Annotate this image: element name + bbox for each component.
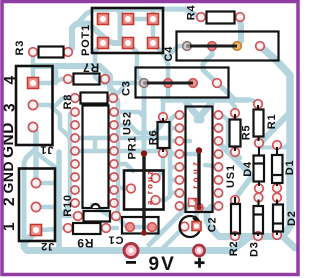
wire bottom bus [24, 231, 247, 251]
pads round [28, 13, 281, 241]
diode D1 [272, 155, 283, 183]
wire bus B [207, 207, 284, 237]
wire C2 right stub [197, 210, 200, 226]
wire R8.1 stub [56, 98, 75, 105]
pads J2 pin4 pin3 [31, 178, 40, 187]
wire PR1.RB right [155, 196, 170, 200]
resistor R8 [81, 93, 108, 104]
pad big minus [124, 244, 138, 258]
wire R3.1 to J1 pad [31, 52, 36, 83]
wire J2.2 stub [36, 205, 59, 210]
wire left bus lower [56, 152, 62, 248]
pads R7 [64, 75, 73, 84]
wire US2.R8 stub [114, 203, 118, 207]
wire POT1 TR-BR [151, 19, 156, 43]
wire D4-D3 link [257, 185, 262, 200]
pads US1 left column pins 1-8 [175, 111, 183, 119]
wire bus y100 [163, 97, 248, 103]
wire vertical x170 [168, 120, 173, 196]
diode D2 [273, 205, 283, 232]
svg-text:R4: R4 [186, 5, 198, 21]
wire POT1 TM-TR [128, 17, 153, 22]
svg-text:J2: J2 [40, 240, 54, 252]
wire branch to POT1 TM [117, 10, 128, 19]
svg-text:D1: D1 [284, 160, 296, 176]
traces [24, 9, 295, 251]
wire D1-D2 link [275, 185, 280, 200]
svg-text:R2: R2 [228, 241, 240, 257]
svg-text:C1: C1 [108, 234, 124, 246]
wire branch to left bus [37, 153, 59, 172]
wire C4.2 down through C3.4 to bus [203, 51, 238, 100]
wire jog to D row [259, 112, 290, 145]
pads on C4 bar [183, 42, 192, 51]
wire branch to J2 left vertical [24, 150, 34, 246]
trimmer PR1 [124, 171, 164, 210]
wire J1.2 right [33, 105, 70, 140]
red part texts [145, 162, 200, 205]
connector J2 [19, 169, 55, 242]
wire R5 bottom [235, 152, 240, 158]
wire main diagonal US1 to R2 [220, 144, 252, 200]
svg-text:9V: 9V [149, 254, 176, 275]
wire row y138 [75, 138, 179, 141]
pads R8 [71, 94, 80, 103]
pad big plus [193, 245, 204, 256]
resistor R6 [158, 122, 170, 148]
pot POT1 [92, 8, 163, 53]
resistor R2 [231, 204, 240, 234]
wire X cross US1 b [197, 103, 212, 120]
pad square US1 pin1 [189, 199, 197, 207]
wire top bus to R4 [78, 9, 201, 23]
svg-text:C4: C4 [163, 46, 175, 62]
label plus [195, 261, 205, 264]
resistor R9 [73, 223, 101, 234]
svg-text:C2: C2 [206, 217, 218, 233]
cap C3 bar [145, 82, 193, 85]
svg-text:R3: R3 [14, 40, 26, 56]
diode D3 [254, 206, 264, 234]
svg-text:US1: US1 [225, 164, 237, 188]
svg-text:US2: US2 [121, 111, 133, 135]
pad C4.3 orange [233, 42, 242, 51]
ic US2 [83, 106, 109, 209]
wire US2.R1 to x144 [114, 112, 144, 117]
pad J2 pin1 square [31, 225, 42, 236]
wire right bus [260, 46, 290, 235]
pads R3 [29, 48, 38, 57]
pad jumper US1 bottom [195, 204, 203, 212]
svg-text:R9: R9 [77, 236, 94, 250]
svg-text:R6: R6 [148, 130, 160, 146]
wire C1 internal [130, 225, 152, 230]
pads US2 right column pins 9-16 [110, 108, 118, 116]
cap C2 square pad [192, 222, 201, 231]
wire bus2 x70 [60, 114, 70, 216]
wire D4 top to D1 top [259, 142, 290, 148]
wire C3.2 stub [166, 86, 171, 100]
wire J2.1 stub [36, 181, 59, 186]
wire R8.2 diag [113, 85, 125, 98]
wire row y151 [75, 151, 179, 154]
pads US2 left column pins 1-8 [71, 108, 79, 116]
wire J2.3 right stub [41, 229, 59, 230]
wire square pad diagonal to bus [149, 203, 191, 245]
pad J1 pin4 square [28, 78, 39, 89]
wire X cross US1 a [187, 103, 202, 120]
wire POT1 BM to C3 [128, 43, 143, 82]
wire J1.4 right to R7.1 [38, 66, 56, 83]
cap C3 [136, 68, 229, 98]
svg-text:C3: C3 [121, 80, 133, 96]
svg-text:R8: R8 [62, 94, 74, 110]
svg-text:3: 3 [2, 103, 19, 112]
resistor R4 [207, 12, 235, 24]
wire x228 upper [226, 120, 231, 146]
svg-text:POT1: POT1 [80, 24, 92, 56]
wire C3.1 down to PR1 jumper [142, 87, 147, 152]
pads R4 [197, 13, 206, 22]
resistor R7 [74, 74, 100, 85]
wire H crossbar in US2 [93, 138, 98, 151]
svg-text:R10: R10 [62, 194, 74, 217]
svg-text:J1: J1 [40, 144, 54, 156]
svg-text:R5: R5 [241, 125, 253, 141]
pads US1 right column pins 9-16 [214, 111, 222, 119]
svg-text:R7: R7 [82, 60, 99, 74]
wire R9.2 stub [106, 226, 117, 231]
wire C1.2 stub [152, 227, 158, 231]
pads square POT1 [28, 14, 159, 236]
wire R3.2 up and into POT1 [69, 24, 90, 53]
wire POT1 BL to C3 [95, 43, 141, 83]
diode D4 [254, 156, 265, 182]
svg-text:D3: D3 [249, 241, 261, 257]
ic US1 [186, 107, 213, 213]
svg-text:D2: D2 [286, 210, 298, 226]
pad C3.4 [213, 79, 222, 88]
pads [28, 13, 282, 258]
resistor R5 [230, 120, 241, 147]
cap C4 bar [188, 45, 237, 48]
wire stubs US1 left [170, 126, 179, 131]
pad C4.4 [256, 42, 265, 51]
connector J1 [16, 66, 53, 145]
wire stubs under US1 [180, 152, 196, 157]
wire J1.3 down to J2.1 [33, 131, 39, 183]
resistor R10 [84, 211, 111, 222]
label minus [126, 261, 136, 264]
wire stub bus to TR pad [151, 12, 156, 19]
wire R10.1 stub [59, 214, 78, 219]
resistor R3 [39, 47, 64, 58]
leads vertical components [163, 105, 277, 236]
wire R5 top stub [231, 102, 235, 113]
svg-text:D4: D4 [242, 161, 254, 177]
wire drop from bus into POT1 [118, 11, 123, 38]
wire R9.1 stub [59, 226, 68, 231]
cap C1 [122, 217, 159, 234]
wire from US2.R2 [114, 122, 163, 133]
pads on C3 bar [140, 79, 149, 88]
pads POT1 square [98, 14, 109, 25]
wire vertical x118 [114, 96, 118, 218]
cap C2 plus mark [192, 216, 198, 222]
cap C4 [177, 32, 279, 61]
wire diag US2 to R10.2 [92, 205, 116, 218]
jumper US1 bar [197, 151, 200, 208]
resistor R1 [254, 110, 264, 137]
wire R4.2 to C4.3 [238, 19, 241, 45]
jumper PR1 bar [142, 154, 145, 234]
wire bus y66 [34, 66, 114, 97]
svg-text:PR1: PR1 [126, 136, 138, 160]
wire R6 top stub [161, 100, 166, 117]
wire into POT1 to BM pad [88, 24, 126, 44]
svg-text:4: 4 [2, 75, 19, 84]
wire C2 left stub [161, 227, 185, 251]
cap C2 [180, 216, 201, 237]
wire C4.1 left [168, 46, 187, 60]
wire POT1 BR to C3.2 [153, 43, 168, 83]
pads C1 [126, 223, 135, 232]
svg-text:R1: R1 [266, 114, 278, 130]
wire R1 top stub [248, 100, 258, 104]
wire R6 bottom to PR1 [156, 153, 163, 178]
pads J1 pin3 pin2 [28, 100, 37, 109]
jumper bars [141, 44, 237, 236]
